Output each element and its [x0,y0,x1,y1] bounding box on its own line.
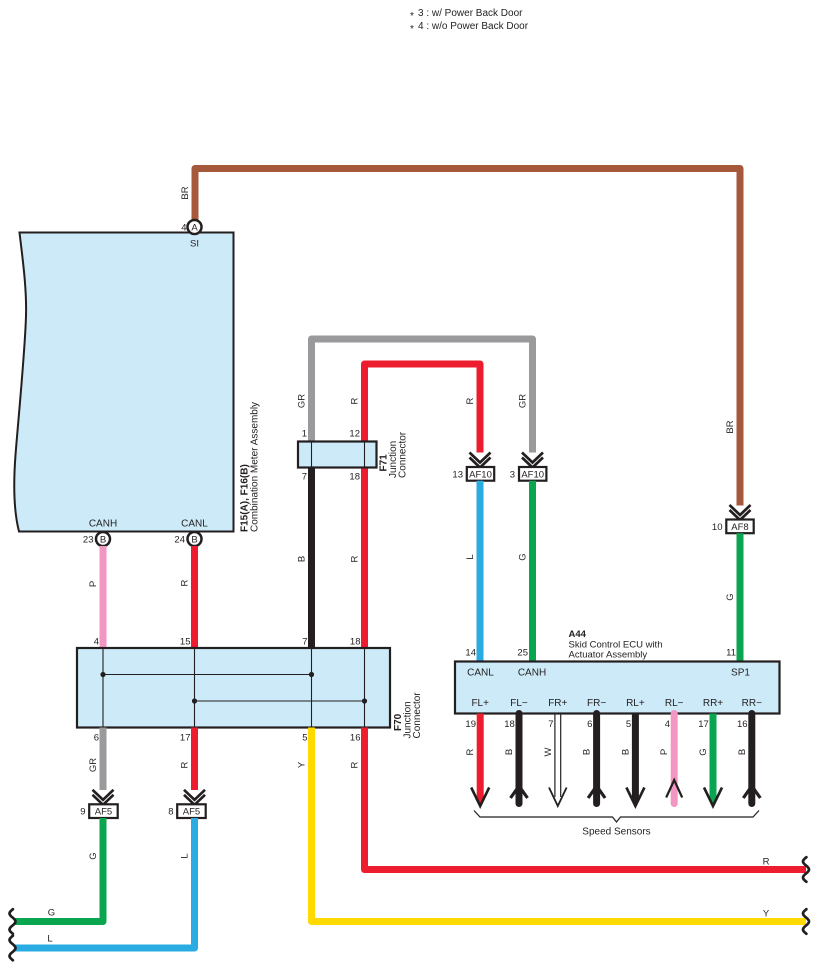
break symbol green wire [10,909,16,934]
svg-text:BR: BR [725,420,736,433]
svg-text:5: 5 [302,733,307,744]
wire L from AF10 13 to A44 pin 14 [477,481,484,662]
svg-text:GR: GR [518,394,529,408]
svg-text:14: 14 [465,648,476,659]
svg-text:R: R [180,761,191,768]
svg-text:17: 17 [180,733,191,744]
svg-text:R: R [465,748,476,755]
svg-text:15: 15 [180,637,191,648]
break symbol yellow wire [803,909,809,934]
connector 3 AF10 (arrow + box) [519,453,546,481]
svg-text:BR: BR [180,186,191,199]
wire P from pin 23 to F70 pin 4 [100,546,107,648]
svg-text:16: 16 [350,733,361,744]
svg-text:G: G [518,553,529,560]
svg-text:11: 11 [726,648,736,659]
wire W sensor FR+ (down arrow) [549,714,567,807]
skid control ECU A44 box [455,662,780,714]
svg-text:B: B [504,749,515,755]
wire BR from meter pin 4(A) to AF8 [195,169,740,506]
wire B sensor RR- (up arrow) [743,714,760,804]
svg-text:B: B [100,535,106,546]
svg-text:L: L [47,934,52,945]
wire G from AF8 to A44 pin 11 [737,533,744,661]
svg-text:7: 7 [548,719,553,730]
svg-text:Connector: Connector [412,692,423,739]
svg-text:9: 9 [80,807,85,818]
svg-text:10: 10 [712,522,723,533]
wire G from AF5 9 to left edge [14,818,103,922]
label F71 Junction Connector (rotated) [379,431,409,478]
svg-text:FL+: FL+ [471,698,489,709]
svg-text:G: G [48,908,55,919]
svg-text:18: 18 [504,719,515,730]
node B circle CANL pin 24 [188,532,202,546]
wire B sensor FR- (up arrow) [588,714,605,804]
svg-text:4: 4 [181,223,186,234]
connector 8 AF5 (arrow + box) [177,790,206,818]
svg-text:FR+: FR+ [548,698,567,709]
svg-text:6: 6 [587,719,592,730]
wire R from F70 pin 16 to right edge [365,728,807,870]
note: asterisk legend line 1 [410,8,523,22]
svg-text:3 : w/ Power Back Door: 3 : w/ Power Back Door [418,8,523,19]
svg-text:19: 19 [465,719,476,730]
wire GR from F70 pin 6 to AF5 [100,728,107,791]
svg-text:24: 24 [174,535,185,546]
svg-text:Combination Meter Assembly: Combination Meter Assembly [250,402,261,532]
svg-text:Connector: Connector [398,431,409,478]
connector 10 AF8 (arrow + box) [726,505,753,533]
svg-text:1: 1 [302,429,307,440]
svg-text:R: R [180,579,191,586]
label F15(A), F16(B) Combination Meter Assembly (rotated) [240,402,261,532]
svg-text:RR−: RR− [742,698,762,709]
svg-text:7: 7 [302,472,307,483]
wire B sensor FL- (up arrow) [511,714,528,804]
svg-text:B: B [297,556,308,562]
svg-text:12: 12 [349,429,360,440]
svg-text:GR: GR [88,758,99,772]
svg-text:17: 17 [698,719,709,730]
connector 9 AF5 (arrow + box) [89,790,118,818]
svg-text:RR+: RR+ [703,698,723,709]
connector 13 AF10 (arrow + box) [467,453,494,481]
wire R from F71 pin 18 to F70 pin 18 [361,467,368,648]
svg-text:SP1: SP1 [731,668,750,679]
svg-text:Y: Y [297,761,308,768]
wire GR loop from F71 pin 1 to AF10 pin 3 [312,339,533,453]
break symbol red wire [803,857,809,882]
svg-text:G: G [698,748,709,755]
node A circle on meter top [188,220,202,234]
svg-text:CANH: CANH [89,519,117,530]
svg-text:G: G [88,852,99,859]
svg-text:4 : w/o Power Back Door: 4 : w/o Power Back Door [418,21,529,32]
svg-text:W: W [543,747,554,756]
note: asterisk legend line 2 [410,21,529,35]
svg-text:R: R [350,555,361,562]
node B circle CANH pin 23 [96,532,110,546]
svg-text:23: 23 [83,535,94,546]
svg-text:AF8: AF8 [731,522,748,533]
svg-text:6: 6 [94,733,99,744]
svg-text:Speed Sensors: Speed Sensors [582,827,650,838]
svg-text:B: B [582,749,593,755]
svg-text:AF10: AF10 [469,469,492,480]
junction connector F71 box [298,442,377,468]
svg-text:25: 25 [517,648,528,659]
svg-text:AF5: AF5 [183,807,200,818]
svg-text:8: 8 [168,807,173,818]
wire R loop from F71 pin 12 to AF10 pin 13 [365,364,481,453]
svg-text:A: A [191,223,198,234]
svg-text:B: B [191,535,197,546]
svg-text:P: P [659,749,670,755]
brace speed sensors [474,811,759,823]
wire R from F70 pin 17 to AF5 [191,728,198,791]
svg-text:13: 13 [452,469,463,480]
svg-text:AF5: AF5 [95,807,112,818]
svg-text:AF10: AF10 [521,469,544,480]
svg-text:4: 4 [665,719,670,730]
wire B sensor RL+ (down arrow) [626,714,644,807]
svg-text:R: R [465,397,476,404]
svg-text:R: R [350,397,361,404]
svg-text:L: L [180,853,191,858]
svg-text:18: 18 [350,637,361,648]
wire G from AF10 3 to A44 pin 25 [529,481,536,662]
wire R sensor FL+ (down arrow) [471,714,489,807]
wire L from AF5 8 to left edge [15,818,195,948]
svg-text:R: R [350,761,361,768]
label A44 Skid Control ECU with Actuator Assembly [569,629,663,661]
svg-text:18: 18 [349,472,360,483]
break symbol blue wire [10,936,16,961]
svg-text:B: B [737,749,748,755]
wire G sensor RR+ (down arrow) [704,714,722,807]
svg-text:*: * [410,11,414,22]
wire R from pin 24 to F70 pin 15 [191,546,198,648]
svg-text:GR: GR [297,394,308,408]
svg-text:4: 4 [94,637,99,648]
svg-text:5: 5 [626,719,631,730]
wire B from F71 pin 7 to F70 pin 7 [308,467,315,648]
svg-text:G: G [725,593,736,600]
combination meter assembly F15(A), F16(B) box [14,233,233,532]
svg-text:7: 7 [302,637,307,648]
svg-text:3: 3 [510,469,515,480]
wire Y from F70 pin 5 to right edge [312,728,807,922]
svg-text:Y: Y [763,909,770,920]
wire P sensor RL- (up arrow) [666,714,682,804]
svg-text:P: P [88,581,99,587]
svg-text:CANL: CANL [467,668,494,679]
svg-text:16: 16 [737,719,748,730]
svg-text:L: L [465,554,476,559]
svg-text:CANH: CANH [518,668,546,679]
svg-text:FR−: FR− [587,698,606,709]
label F70 Junction Connector (rotated) [393,692,423,739]
svg-text:CANL: CANL [181,519,208,530]
svg-text:*: * [410,24,414,35]
svg-text:Actuator Assembly: Actuator Assembly [569,650,648,661]
svg-text:B: B [620,749,631,755]
svg-text:RL+: RL+ [626,698,645,709]
svg-text:FL−: FL− [510,698,528,709]
svg-text:SI: SI [190,239,199,250]
junction connector F70 box [77,648,390,728]
svg-text:R: R [763,857,770,868]
svg-text:RL−: RL− [665,698,684,709]
